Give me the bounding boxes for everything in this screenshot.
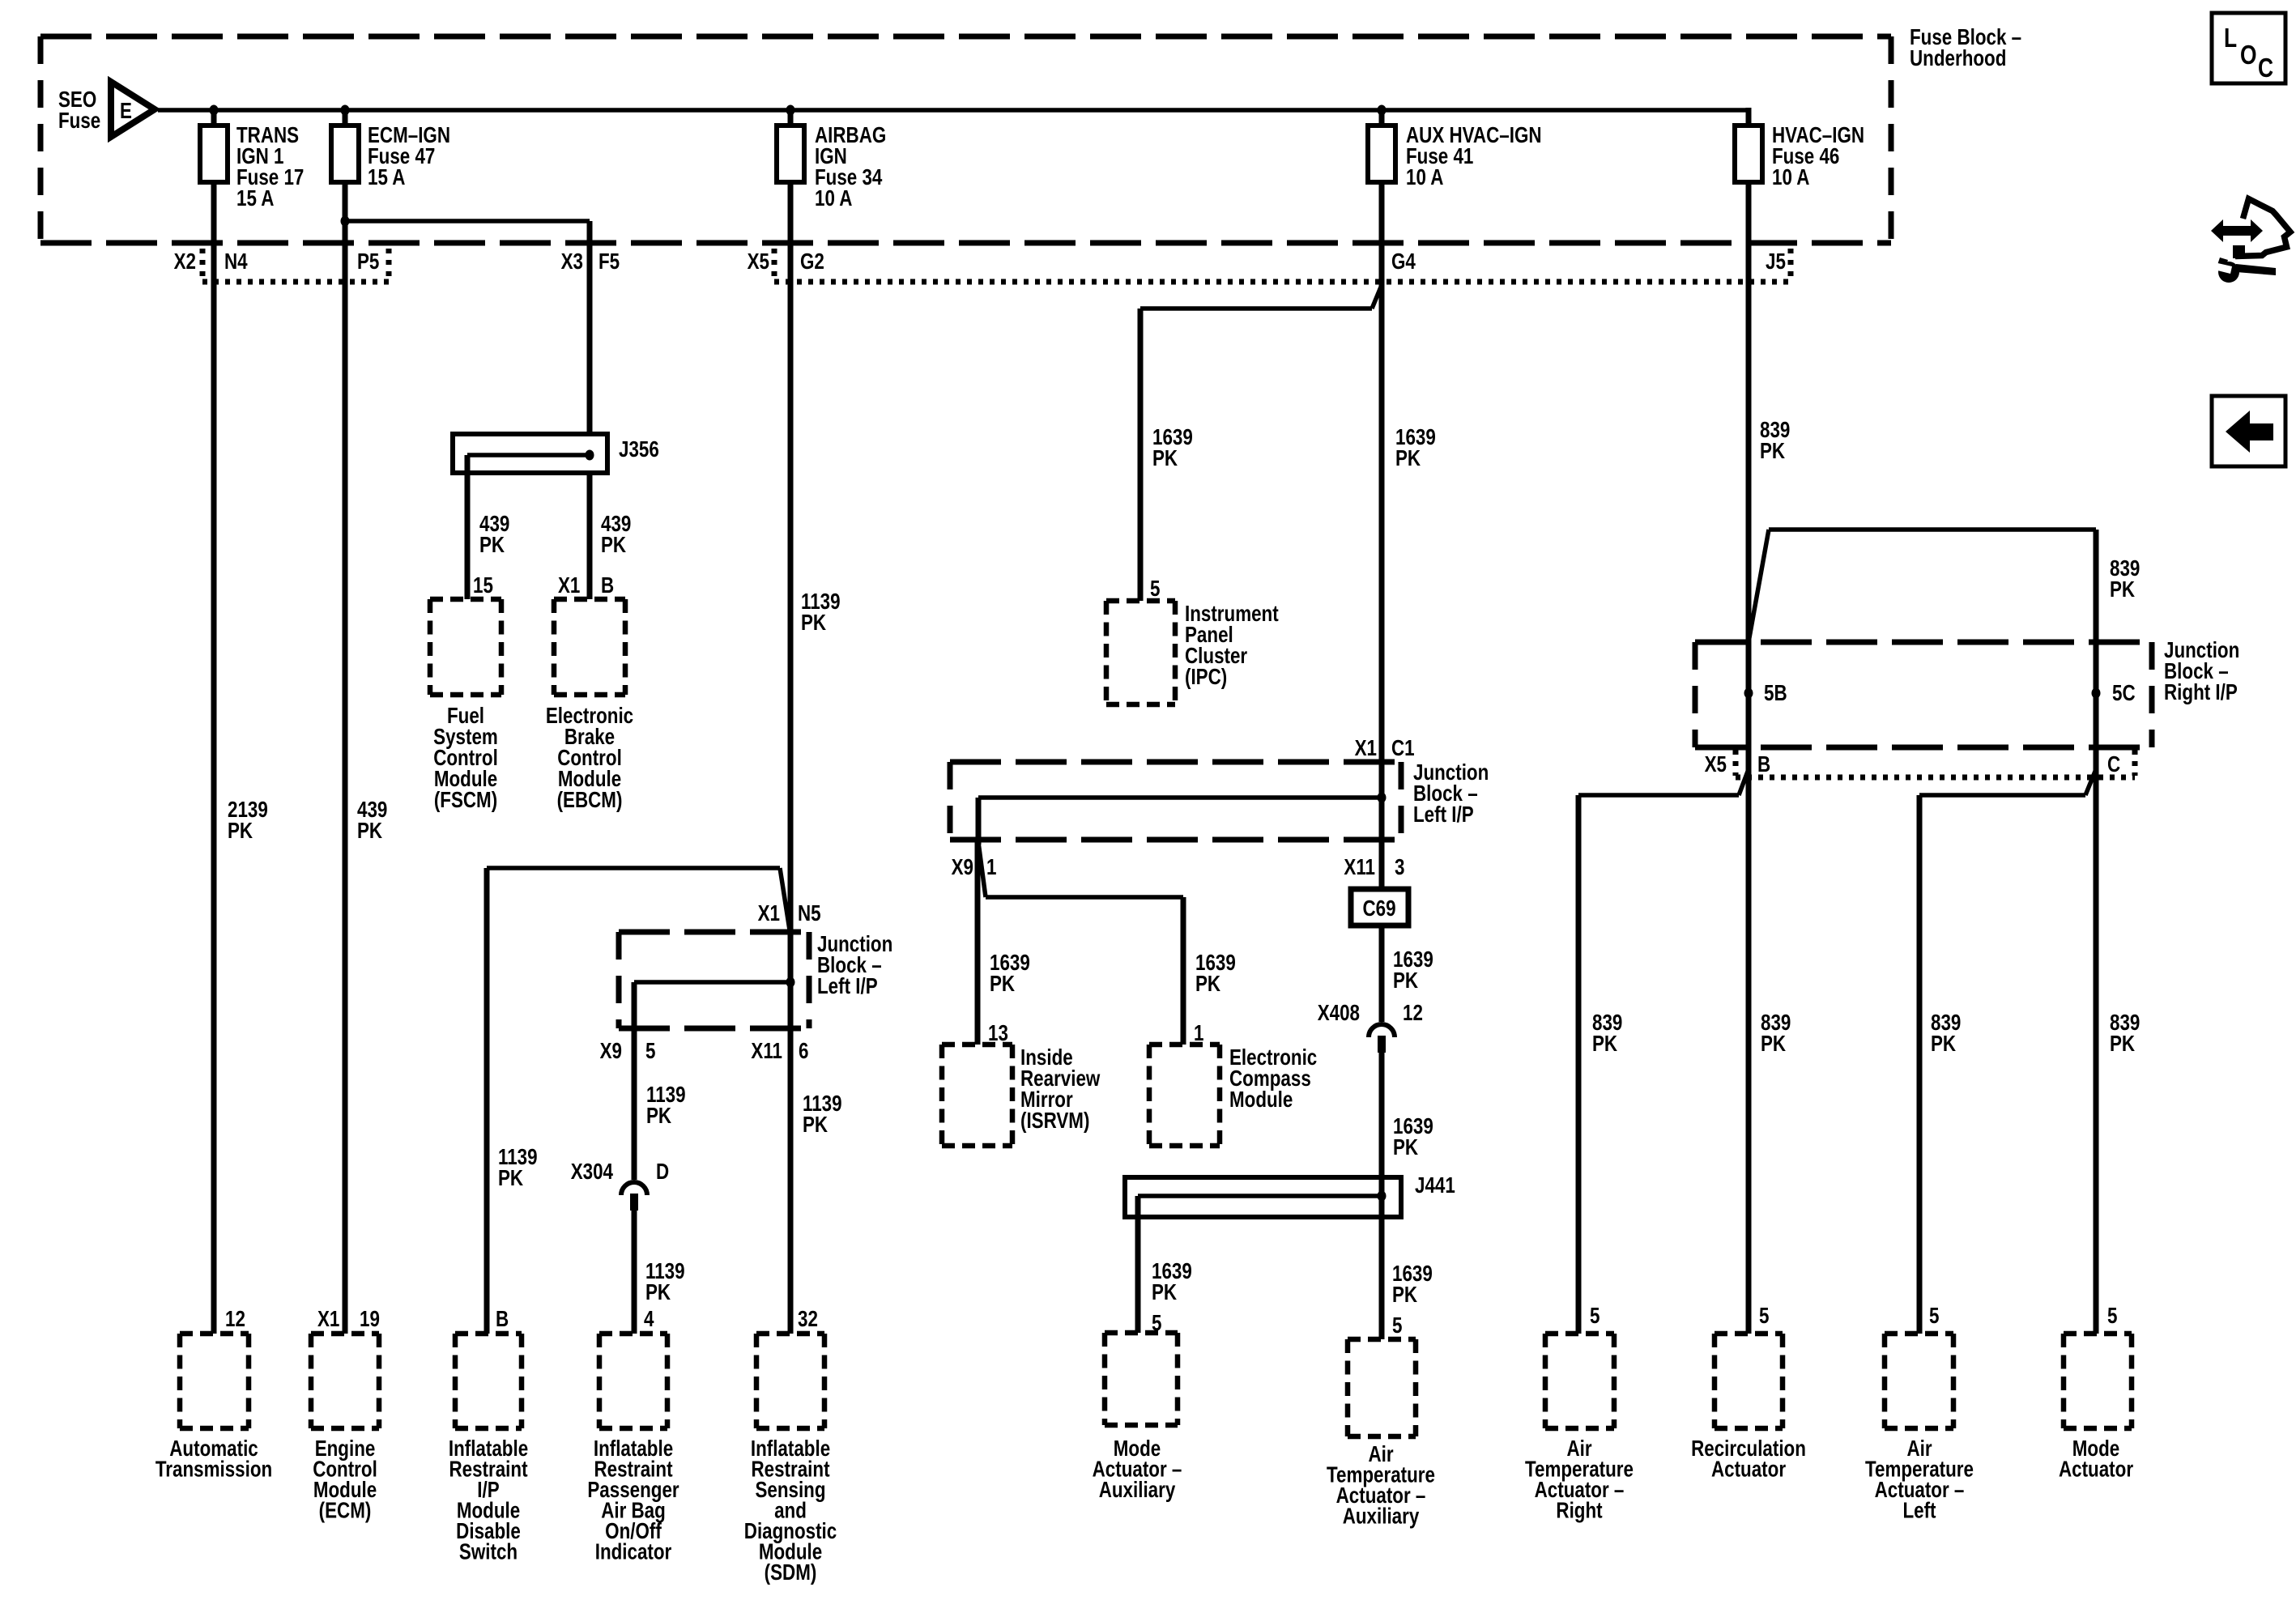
inline connector X408 pin 12 (female arc) xyxy=(1369,1024,1395,1037)
svg-text:Left: Left xyxy=(1902,1498,1936,1523)
svg-text:5: 5 xyxy=(645,1039,655,1064)
svg-text:PK: PK xyxy=(357,819,383,844)
svg-text:5: 5 xyxy=(1150,577,1160,602)
module Inside Rearview Mirror ISRVM (dashed box) xyxy=(942,1045,1012,1146)
wire 1639 PK X408 to J441 xyxy=(1379,1053,1385,1196)
fuse AIRBAG IGN Fuse 34 10A symbol xyxy=(777,126,804,182)
svg-text:10 A: 10 A xyxy=(1406,165,1443,190)
module Mode Actuator - Auxiliary (dashed box) xyxy=(1105,1333,1178,1425)
svg-text:15 A: 15 A xyxy=(368,165,405,190)
wire X9-1 drop xyxy=(976,798,982,845)
splice pack J356 box xyxy=(453,434,607,473)
node 5C xyxy=(2092,688,2101,699)
wire branch to splice J356 horizontal xyxy=(345,219,590,223)
wire 1639 PK aux hvac ignition upper xyxy=(1379,182,1385,889)
module Engine Control Module ECM (dashed box) xyxy=(311,1334,379,1428)
svg-text:X1: X1 xyxy=(317,1307,339,1332)
svg-text:X5: X5 xyxy=(1705,752,1727,777)
node: splice J356 junction xyxy=(586,450,594,461)
wire jog from pin B xyxy=(1739,769,1749,795)
wire 1639 PK to compass xyxy=(1181,897,1186,1045)
wire 1139 PK junction to X304 xyxy=(632,982,637,1180)
splice J441 internal bus xyxy=(1138,1194,1382,1198)
svg-text:PK: PK xyxy=(1393,968,1419,994)
svg-text:Indicator: Indicator xyxy=(595,1539,672,1564)
svg-text:P5: P5 xyxy=(357,249,379,274)
inline connector X408 male stub xyxy=(1378,1036,1386,1053)
wire jog from pin C xyxy=(2085,769,2096,795)
svg-text:(SDM): (SDM) xyxy=(765,1560,817,1585)
wire 1139 PK to air bag indicator xyxy=(632,1211,637,1334)
inline connector X304 male stub xyxy=(630,1194,638,1211)
svg-text:N4: N4 xyxy=(224,249,248,274)
node: junction block splice on sdm wire xyxy=(786,977,795,988)
svg-text:PK: PK xyxy=(601,533,627,558)
junction block - right i/p dashed box xyxy=(1695,642,2152,747)
svg-text:15 A: 15 A xyxy=(236,186,274,211)
splice pack J441 box xyxy=(1125,1177,1401,1217)
svg-text:G2: G2 xyxy=(800,249,824,274)
icon: hand outline xyxy=(2235,199,2290,257)
wire: main ignition feed bus xyxy=(158,108,1751,113)
svg-text:PK: PK xyxy=(2110,577,2136,602)
svg-text:15: 15 xyxy=(473,573,493,598)
wire stub into fuse at x=976 xyxy=(788,108,794,128)
wire 839 PK to air temp actuator right xyxy=(1576,795,1582,1334)
wire 1639 PK c69 to X408 xyxy=(1379,926,1385,1022)
fuse AUX HVAC-IGN Fuse 41 10A symbol xyxy=(1368,126,1395,182)
svg-text:Actuator: Actuator xyxy=(2059,1457,2133,1482)
svg-text:X304: X304 xyxy=(571,1160,613,1185)
fuse ECM-IGN Fuse 47 15A symbol xyxy=(331,126,359,182)
wire 839 PK loop right down to 5C xyxy=(2094,530,2099,1334)
module Fuel System Control Module FSCM (dashed box) xyxy=(430,599,501,695)
svg-text:5: 5 xyxy=(1929,1304,1939,1329)
wire 439 PK to EBCM xyxy=(587,473,593,599)
svg-text:X408: X408 xyxy=(1318,1001,1360,1026)
svg-text:N5: N5 xyxy=(798,901,821,926)
node: bus tap ECM-IGN xyxy=(341,105,350,116)
svg-text:L: L xyxy=(2224,23,2237,53)
svg-text:J441: J441 xyxy=(1415,1173,1455,1198)
node: junction block splice on aux wire xyxy=(1378,793,1387,803)
wire branch to IPC horizontal xyxy=(1140,306,1372,311)
fuse HVAC-IGN Fuse 46 10A symbol xyxy=(1735,126,1762,182)
wire stub into fuse at x=426 xyxy=(343,108,348,128)
svg-text:PK: PK xyxy=(1931,1032,1957,1057)
svg-text:Transmission: Transmission xyxy=(155,1457,272,1482)
svg-text:Actuator: Actuator xyxy=(1711,1457,1786,1482)
wire branch to compass horizontal xyxy=(986,895,1183,900)
right ip pin row dotted bottom xyxy=(1736,775,2135,781)
svg-text:Module: Module xyxy=(1229,1087,1293,1113)
svg-text:Left I/P: Left I/P xyxy=(817,974,878,999)
svg-text:PK: PK xyxy=(803,1113,829,1138)
svg-text:PK: PK xyxy=(1393,1135,1419,1160)
svg-text:10 A: 10 A xyxy=(815,186,852,211)
svg-text:PK: PK xyxy=(1195,972,1221,997)
svg-text:D: D xyxy=(656,1160,669,1185)
right ip pin row dotted separators xyxy=(1733,750,1739,776)
connector row dotted separators xyxy=(200,249,206,276)
svg-text:PK: PK xyxy=(1392,1283,1418,1308)
svg-text:PK: PK xyxy=(2110,1032,2136,1057)
svg-text:PK: PK xyxy=(228,819,253,844)
svg-text:X9: X9 xyxy=(600,1039,622,1064)
wire 1639 PK to mode actuator aux xyxy=(1135,1196,1141,1333)
svg-text:PK: PK xyxy=(479,533,505,558)
wire branch to air temp left horizontal xyxy=(1919,793,2085,798)
icon: hand cuff xyxy=(2233,245,2245,258)
module Electronic Brake Control Module EBCM (dashed box) xyxy=(554,599,625,695)
icon: adjustable component hand with wrench - double arrow xyxy=(2211,219,2263,242)
wire 1639 PK to ISRVM xyxy=(975,842,981,1045)
svg-text:Auxiliary: Auxiliary xyxy=(1343,1504,1420,1529)
svg-text:PK: PK xyxy=(1395,446,1421,471)
wire stub into fuse at x=2159 xyxy=(1746,108,1752,128)
module Air Temperature Actuator - Auxiliary (dashed box) xyxy=(1348,1339,1416,1436)
svg-text:(EBCM): (EBCM) xyxy=(557,788,623,813)
icon: wrench notch xyxy=(2214,262,2232,274)
fuse TRANS IGN 1 Fuse 17 15A symbol xyxy=(200,126,228,182)
svg-text:B: B xyxy=(601,573,614,598)
svg-text:6: 6 xyxy=(799,1039,808,1064)
inline connector X304 pin D (female arc) xyxy=(621,1182,647,1195)
wire 439 PK ECM ignition xyxy=(343,182,348,1334)
svg-text:5C: 5C xyxy=(2112,681,2136,706)
icon: wrench head xyxy=(2218,262,2239,283)
module Recirculation Actuator (dashed box) xyxy=(1715,1334,1783,1428)
svg-text:4: 4 xyxy=(644,1307,654,1332)
svg-text:PK: PK xyxy=(498,1166,524,1191)
connector row dotted bottom line X2 section xyxy=(202,279,389,285)
svg-text:X11: X11 xyxy=(751,1039,782,1064)
wire 1139 PK to disable switch xyxy=(484,868,490,1334)
node 5B xyxy=(1744,688,1753,699)
module Automatic Transmission (dashed box) xyxy=(180,1334,249,1428)
module Inflatable Restraint Sensing and Diagnostic Module SDM (dashed box) xyxy=(756,1334,824,1428)
svg-text:Auxiliary: Auxiliary xyxy=(1099,1478,1176,1503)
node: bus tap AIRBAG IGN xyxy=(786,105,795,116)
wire 439 PK to FSCM xyxy=(465,455,471,599)
svg-text:B: B xyxy=(496,1307,509,1332)
svg-text:Right: Right xyxy=(1556,1498,1603,1523)
svg-text:(ISRVM): (ISRVM) xyxy=(1020,1108,1089,1134)
wire 1139 PK airbag ignition xyxy=(788,182,794,1334)
svg-text:Right I/P: Right I/P xyxy=(2164,680,2238,705)
svg-text:F5: F5 xyxy=(598,249,620,274)
svg-text:32: 32 xyxy=(798,1307,818,1332)
svg-text:X5: X5 xyxy=(748,249,769,274)
junction block - left i/p (N5) dashed box xyxy=(619,932,809,1028)
svg-text:X2: X2 xyxy=(174,249,196,274)
svg-text:C: C xyxy=(2107,752,2120,777)
LOC page reference box xyxy=(2212,13,2285,83)
svg-text:PK: PK xyxy=(1592,1032,1618,1057)
wire 1639 PK to IPC xyxy=(1138,309,1144,601)
wire stub into fuse at x=264 xyxy=(211,108,217,128)
wire 2139 PK trans ignition xyxy=(211,182,217,1334)
svg-text:(IPC): (IPC) xyxy=(1185,665,1227,690)
back arrow box xyxy=(2212,396,2285,466)
svg-text:Switch: Switch xyxy=(459,1539,518,1564)
svg-text:1: 1 xyxy=(986,855,996,880)
svg-text:Left I/P: Left I/P xyxy=(1413,802,1474,828)
svg-text:C69: C69 xyxy=(1362,896,1395,921)
module Air Temperature Actuator - Right (dashed box) xyxy=(1545,1334,1614,1428)
icon: wrench shaft xyxy=(2236,264,2276,275)
back arrow xyxy=(2226,411,2273,453)
svg-text:PK: PK xyxy=(1152,1280,1178,1305)
svg-text:X1: X1 xyxy=(758,901,780,926)
icon: wrench jaw tip xyxy=(2217,257,2228,267)
svg-text:12: 12 xyxy=(1403,1001,1423,1026)
fuse block - underhood (dashed enclosure) xyxy=(40,36,1891,243)
node: bus tap TRANS IGN xyxy=(210,105,219,116)
svg-text:O: O xyxy=(2240,40,2257,70)
svg-text:Fuse: Fuse xyxy=(58,109,100,134)
junction block internal bus to X9-5 xyxy=(634,980,790,985)
wire 839 PK to air temp actuator left xyxy=(1917,795,1923,1334)
svg-text:C1: C1 xyxy=(1391,736,1415,761)
svg-text:PK: PK xyxy=(646,1104,672,1129)
connector row dotted bottom line X5-J5 section xyxy=(774,279,1791,285)
wire branch to air temp right horizontal xyxy=(1578,793,1739,798)
wire branch to splice J356 vertical 439 PK xyxy=(587,221,593,436)
wire stub into fuse at x=1706 xyxy=(1379,108,1385,128)
svg-text:C: C xyxy=(2258,53,2273,83)
svg-text:G4: G4 xyxy=(1391,249,1416,274)
svg-text:(FSCM): (FSCM) xyxy=(434,788,497,813)
node: bus tap AUX HVAC-IGN xyxy=(1378,105,1387,116)
junction block - left i/p (C1) dashed box xyxy=(950,762,1401,840)
SEO fuse source triangle E xyxy=(111,82,155,137)
wire jog up to 5C loop xyxy=(1749,530,1769,642)
svg-text:PK: PK xyxy=(990,972,1016,997)
svg-text:X11: X11 xyxy=(1344,855,1375,880)
svg-text:PK: PK xyxy=(1760,439,1786,464)
splice J356 internal bus xyxy=(467,453,590,457)
junction block internal bus to X9-1 xyxy=(978,795,1382,800)
svg-text:PK: PK xyxy=(645,1280,671,1305)
svg-text:J5: J5 xyxy=(1766,249,1786,274)
svg-text:5B: 5B xyxy=(1764,681,1787,706)
svg-text:12: 12 xyxy=(225,1307,245,1332)
module Electronic Compass Module (dashed box) xyxy=(1149,1045,1220,1146)
svg-text:PK: PK xyxy=(801,611,827,636)
svg-text:Underhood: Underhood xyxy=(1910,46,2006,71)
wire branch to disable switch horizontal xyxy=(487,866,780,870)
wire jog to IPC branch xyxy=(1372,285,1382,309)
svg-text:B: B xyxy=(1757,752,1770,777)
svg-text:X3: X3 xyxy=(561,249,583,274)
module Mode Actuator (dashed box) xyxy=(2064,1334,2132,1428)
node: splice J441 junction xyxy=(1378,1191,1387,1202)
svg-text:X1: X1 xyxy=(1355,736,1377,761)
svg-text:E: E xyxy=(120,99,132,124)
svg-text:(ECM): (ECM) xyxy=(319,1498,372,1523)
svg-text:5: 5 xyxy=(1590,1304,1600,1329)
module Inflatable Restraint I/P Module Disable Switch (dashed box) xyxy=(455,1334,522,1428)
node: ECM wire branch to J356 xyxy=(341,216,350,227)
connector C69 box xyxy=(1351,889,1408,926)
svg-text:19: 19 xyxy=(360,1307,380,1332)
wire jog into junction block N5 xyxy=(780,868,790,935)
svg-text:PK: PK xyxy=(1152,446,1178,471)
svg-text:10 A: 10 A xyxy=(1772,165,1809,190)
svg-text:X1: X1 xyxy=(558,573,580,598)
wire 839 PK hvac ignition down xyxy=(1746,182,1752,1334)
module Inflatable Restraint Passenger Air Bag On/Off Indicator (dashed box) xyxy=(599,1334,667,1428)
svg-text:X9: X9 xyxy=(952,855,973,880)
svg-text:5: 5 xyxy=(1759,1304,1769,1329)
svg-text:J356: J356 xyxy=(619,437,659,462)
wire 839 PK loop top xyxy=(1769,527,2096,532)
wire jog to compass branch xyxy=(978,842,986,897)
module Air Temperature Actuator - Left (dashed box) xyxy=(1885,1334,1953,1428)
svg-text:PK: PK xyxy=(1761,1032,1787,1057)
wire 1639 PK to air temp actuator aux xyxy=(1379,1196,1385,1339)
svg-text:5: 5 xyxy=(1392,1313,1402,1338)
svg-text:3: 3 xyxy=(1395,855,1404,880)
svg-text:5: 5 xyxy=(2107,1304,2117,1329)
module Instrument Panel Cluster IPC (dashed box) xyxy=(1106,601,1175,704)
